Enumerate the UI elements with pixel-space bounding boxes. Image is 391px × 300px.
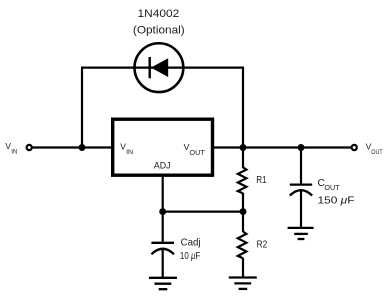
svg-text:ADJ: ADJ (154, 159, 171, 170)
wire left vertical branch up to diode loop (81, 68, 83, 147)
svg-text:OUT: OUT (371, 149, 382, 156)
label COUT (318, 178, 341, 192)
resistor R1 zigzag (238, 167, 247, 193)
label VIN at input terminal (5, 141, 17, 156)
svg-text:Cadj: Cadj (181, 237, 201, 248)
resistor R2 zigzag (238, 232, 247, 259)
ground symbol below COUT (288, 228, 314, 239)
ground symbol below R2 (229, 278, 257, 289)
wire R1 bottom stub (242, 193, 244, 212)
label VOUT at output terminal (366, 141, 383, 156)
diode D1 cathode bar (148, 57, 150, 78)
label VOUT inside box (184, 142, 206, 157)
svg-text:R1: R1 (256, 175, 267, 186)
label VIN inside box (120, 142, 133, 156)
ground symbol below Cadj (149, 278, 177, 289)
capacitor Cadj top plate (151, 242, 174, 244)
wire R2 bottom stub to ground (242, 258, 244, 278)
regulator U1 box (113, 119, 213, 175)
output terminal VOUT open circle (352, 145, 357, 150)
capacitor Cadj curved plate (151, 249, 174, 255)
svg-text:R2: R2 (257, 240, 268, 251)
wire input rail from VIN terminal to regulator box (32, 146, 111, 148)
wire ADJ horizontal to R1/R2 node (163, 211, 243, 213)
junction node dot on input rail (79, 144, 86, 151)
wire COUT top stub (300, 148, 302, 185)
diode D1 triangle (151, 58, 168, 77)
wire COUT bottom stub to ground (300, 191, 302, 229)
svg-text:IN: IN (11, 148, 17, 155)
capacitor COUT top plate (290, 183, 312, 185)
wire Cadj top stub (162, 212, 164, 242)
junction node dot output rail at R1 column (240, 144, 247, 151)
wire R2 top stub (242, 212, 244, 232)
svg-text:IN: IN (126, 149, 133, 156)
wire Cadj bottom stub to ground (162, 249, 164, 278)
wire right vertical branch down to output rail (242, 68, 244, 148)
junction node dot output rail at COUT column (298, 144, 305, 151)
input terminal VIN open circle (27, 145, 32, 150)
svg-text:150 μF: 150 μF (318, 195, 355, 206)
capacitor COUT curved plate (290, 190, 312, 195)
svg-text:OUT: OUT (189, 150, 205, 157)
wire R1 top stub (242, 148, 244, 168)
svg-text:OUT: OUT (324, 185, 340, 192)
svg-text:10 μF: 10 μF (180, 251, 200, 262)
wire output rail from box to VOUT terminal (214, 146, 351, 148)
junction node dot R1/R2 (240, 208, 247, 215)
svg-text:(Optional): (Optional) (133, 25, 185, 37)
diode D1 circle outline (135, 43, 184, 92)
svg-text:1N4002: 1N4002 (138, 8, 180, 20)
wire diode top rail (81, 66, 244, 68)
wire ADJ pin vertical (162, 175, 164, 212)
junction node dot ADJ/Cadj (159, 208, 166, 215)
